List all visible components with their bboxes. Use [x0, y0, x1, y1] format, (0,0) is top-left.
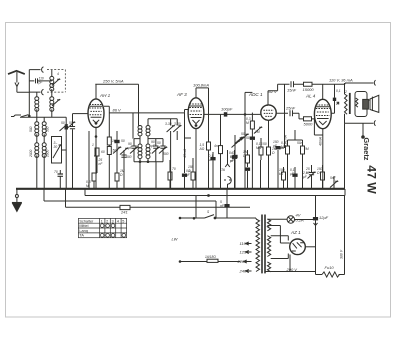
svg-text:62 V: 62 V — [269, 89, 278, 94]
svg-text:5nF: 5nF — [330, 176, 337, 180]
svg-text:70: 70 — [54, 170, 58, 174]
svg-text:50: 50 — [246, 136, 250, 140]
svg-text:4: 4 — [117, 219, 119, 223]
svg-text:50: 50 — [61, 121, 65, 125]
svg-text:40mA: 40mA — [318, 136, 322, 146]
svg-text:250 V, 5mA: 250 V, 5mA — [102, 79, 124, 84]
svg-text:1M: 1M — [255, 130, 260, 134]
svg-text:50: 50 — [121, 139, 125, 143]
svg-text:LW: LW — [172, 237, 179, 242]
svg-text:3-30: 3-30 — [165, 122, 172, 126]
svg-text:1: 1 — [101, 219, 103, 223]
svg-text:100: 100 — [112, 139, 118, 143]
svg-text:240: 240 — [239, 269, 247, 274]
svg-text:2000: 2000 — [29, 149, 33, 158]
svg-text:nF: nF — [99, 162, 104, 166]
svg-text:1A/18Ω: 1A/18Ω — [205, 255, 216, 259]
svg-text:Graetz: Graetz — [362, 138, 371, 161]
svg-text:MΩ: MΩ — [256, 146, 262, 150]
svg-text:μF: μF — [185, 173, 191, 177]
svg-text:AH 1: AH 1 — [99, 93, 111, 98]
svg-text:0,81mA: 0,81mA — [284, 134, 288, 147]
svg-text:60: 60 — [101, 150, 105, 154]
svg-text:30: 30 — [54, 145, 58, 149]
svg-text:110 V, 36 mA: 110 V, 36 mA — [329, 78, 353, 83]
svg-text:2: 2 — [344, 90, 347, 94]
svg-text:70: 70 — [172, 167, 176, 171]
svg-text:Mittel: Mittel — [79, 224, 88, 228]
svg-text:125: 125 — [240, 250, 247, 255]
svg-text:3: 3 — [112, 219, 114, 223]
svg-text:1M: 1M — [304, 147, 309, 151]
svg-text:47 W: 47 W — [364, 165, 378, 194]
svg-text:μF: μF — [229, 159, 235, 163]
svg-text:50: 50 — [69, 121, 73, 125]
svg-text:5000: 5000 — [304, 122, 314, 127]
svg-text:15nF: 15nF — [287, 88, 297, 93]
svg-text:kΩ: kΩ — [279, 172, 284, 176]
svg-text:100,8mA: 100,8mA — [193, 83, 209, 88]
svg-text:290 V: 290 V — [286, 267, 298, 272]
svg-text:100pF: 100pF — [221, 107, 233, 112]
svg-text:86 V: 86 V — [113, 108, 122, 113]
svg-text:15000: 15000 — [303, 87, 315, 92]
svg-text:50n: 50n — [297, 141, 303, 145]
svg-text:241: 241 — [120, 210, 128, 215]
svg-text:Lang: Lang — [79, 229, 87, 233]
svg-text:500: 500 — [126, 155, 132, 159]
svg-text:5: 5 — [122, 219, 124, 223]
svg-text:50: 50 — [263, 142, 267, 146]
svg-text:AΩ: AΩ — [199, 147, 205, 151]
svg-text:S: S — [207, 210, 210, 214]
svg-text:45mA: 45mA — [183, 148, 187, 158]
svg-text:50: 50 — [241, 132, 245, 136]
svg-text:500: 500 — [163, 152, 169, 156]
svg-text:1: 1 — [92, 143, 94, 147]
svg-text:Fu10: Fu10 — [325, 265, 335, 270]
svg-text:500: 500 — [29, 126, 33, 132]
svg-text:12μF: 12μF — [319, 215, 329, 220]
svg-text:Ω: Ω — [317, 171, 320, 175]
svg-text:380 V: 380 V — [339, 249, 343, 259]
svg-text:Ω: Ω — [120, 173, 123, 177]
svg-text:500: 500 — [46, 126, 50, 132]
svg-text:3-30: 3-30 — [174, 122, 181, 126]
svg-text:50: 50 — [157, 141, 161, 145]
svg-text:2000: 2000 — [46, 149, 50, 158]
svg-text:AL 4: AL 4 — [305, 94, 316, 99]
svg-text:M: M — [86, 184, 89, 188]
svg-text:μF: μF — [302, 175, 308, 179]
svg-text:2: 2 — [106, 219, 108, 223]
svg-text:AF 3: AF 3 — [176, 92, 187, 97]
svg-text:M: M — [246, 121, 249, 125]
svg-text:110: 110 — [240, 241, 247, 246]
svg-text:TA: TA — [221, 168, 226, 172]
svg-text:4n: 4n — [214, 144, 218, 148]
svg-text:Ω: Ω — [272, 151, 275, 155]
svg-text:4: 4 — [57, 72, 59, 76]
svg-text:AZ 1: AZ 1 — [290, 230, 301, 235]
svg-text:TA: TA — [79, 234, 84, 238]
svg-text:0,1: 0,1 — [336, 89, 341, 93]
svg-text:500: 500 — [113, 149, 119, 153]
svg-text:ADC 1: ADC 1 — [248, 92, 263, 97]
svg-text:220: 220 — [237, 259, 245, 264]
svg-text:0,2A: 0,2A — [296, 218, 305, 223]
svg-text:Schalter: Schalter — [79, 219, 94, 223]
svg-text:25nF: 25nF — [285, 106, 296, 111]
